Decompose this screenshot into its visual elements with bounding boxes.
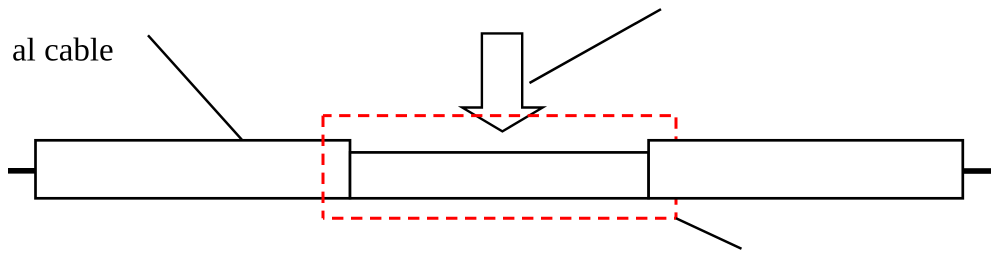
center stripped dielectric rectangle xyxy=(350,152,649,198)
svg-text:al cable: al cable xyxy=(12,33,114,69)
red dashed highlight box: right edge xyxy=(675,116,678,219)
right outer braid rectangle xyxy=(649,140,963,198)
red dashed highlight box: bottom edge xyxy=(323,217,676,220)
left center conductor stub xyxy=(8,168,36,174)
leader line from red box corner xyxy=(676,218,742,249)
red dashed highlight box: left edge xyxy=(322,116,325,219)
leader line to arrow xyxy=(530,9,662,83)
right center conductor stub xyxy=(963,168,991,174)
leader line from label to left cable section xyxy=(148,35,242,140)
red dashed highlight box: top edge xyxy=(323,114,676,117)
left outer braid rectangle xyxy=(36,140,351,198)
block arrow pointing down xyxy=(462,33,543,131)
